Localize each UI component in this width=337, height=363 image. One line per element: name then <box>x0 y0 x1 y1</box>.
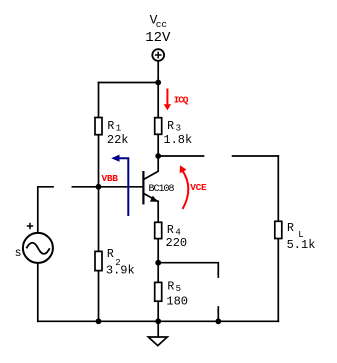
wire R1 column <box>98 83 100 188</box>
wire bottom rail <box>38 320 278 322</box>
svg-text:22k: 22k <box>107 133 129 147</box>
svg-text:BC108: BC108 <box>149 184 175 195</box>
wire source bottom lead <box>37 263 39 321</box>
svg-text:5.1k: 5.1k <box>287 238 316 252</box>
node collector junction <box>155 153 161 159</box>
svg-text:VCE: VCE <box>190 182 207 193</box>
resistor R2 body <box>95 251 102 270</box>
source Vs circle <box>23 233 53 263</box>
svg-text:12V: 12V <box>145 30 171 46</box>
svg-text:R: R <box>287 222 294 235</box>
wire ground stub <box>157 321 159 337</box>
wire collector rail left <box>158 155 203 157</box>
transistor Q1 BC108 <box>143 156 158 204</box>
node top junction <box>155 80 161 86</box>
svg-text:VBB: VBB <box>102 173 119 184</box>
Vcc supply terminal circle <box>152 49 164 61</box>
wire R4 R5 node to right <box>158 263 218 277</box>
base bar <box>142 171 144 204</box>
node bypass bottom <box>215 318 221 324</box>
wire RL column <box>277 156 279 321</box>
svg-text:R: R <box>167 120 174 133</box>
node R4 R5 junction <box>155 260 161 266</box>
node R2 bottom <box>96 318 102 324</box>
svg-text:R: R <box>107 248 114 261</box>
wire Vcc stem <box>157 61 159 83</box>
node base junction <box>96 184 102 190</box>
svg-text:3.9k: 3.9k <box>106 263 135 277</box>
collector lead <box>144 156 158 179</box>
resistor RL body <box>275 221 282 238</box>
svg-text:1.8k: 1.8k <box>163 133 192 147</box>
ground <box>148 337 167 346</box>
svg-text:220: 220 <box>166 236 188 250</box>
svg-text:180: 180 <box>166 295 188 309</box>
red VCE arc arrow <box>182 170 189 210</box>
svg-text:5: 5 <box>176 284 181 294</box>
wire source top lead <box>38 187 53 233</box>
blue VBB indicator arrow <box>116 158 129 216</box>
wire R2 column <box>98 187 100 321</box>
svg-text:R: R <box>167 281 174 294</box>
red ICQ current arrow <box>166 89 168 105</box>
wire bypass stub lower <box>217 307 219 321</box>
emitter lead <box>144 194 158 202</box>
emitter arrowhead <box>150 196 158 202</box>
wire emitter column R4 R5 <box>157 201 159 321</box>
svg-text:R: R <box>107 120 114 133</box>
svg-text:ICQ: ICQ <box>174 94 189 105</box>
resistor R1 body <box>95 118 102 135</box>
wire base rail <box>72 186 142 188</box>
wire top rail <box>99 82 159 84</box>
resistor R5 body <box>155 282 162 301</box>
node ground junction <box>155 318 161 324</box>
svg-text:cc: cc <box>156 19 168 30</box>
resistor R3 body <box>155 118 162 135</box>
resistor R4 body <box>155 222 162 238</box>
wire collector rail right <box>233 155 279 157</box>
wire R3 column <box>157 83 159 157</box>
source plus sign <box>27 223 33 229</box>
svg-text:s: s <box>15 247 22 260</box>
sine wave <box>26 243 49 254</box>
